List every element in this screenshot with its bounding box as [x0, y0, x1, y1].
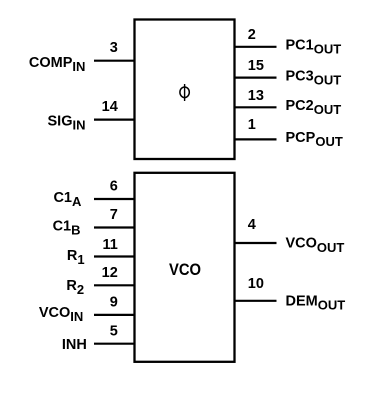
net label PCPOUT: [286, 130, 343, 149]
net label C1A: [53, 190, 82, 209]
net label R2: [66, 278, 84, 297]
pin number 6: [110, 178, 118, 194]
net label PC2OUT: [286, 98, 342, 117]
svg-text:VCO: VCO: [169, 261, 201, 279]
wire pin 7 C1B: [94, 226, 135, 228]
svg-text:6: 6: [110, 178, 118, 194]
VCO block U2: [135, 173, 235, 362]
net label DEMOUT: [286, 293, 346, 312]
phase comparator symbol phi: [180, 84, 189, 101]
svg-text:1: 1: [248, 117, 256, 133]
svg-text:15: 15: [248, 58, 264, 74]
wire pin 2 PC1OUT: [235, 46, 277, 48]
pin number 9: [110, 295, 118, 311]
pin number 3: [110, 40, 118, 56]
wire pin 6 C1A: [94, 198, 135, 200]
svg-text:3: 3: [110, 40, 118, 56]
svg-text:INH: INH: [62, 337, 87, 353]
net label INH: [62, 337, 87, 353]
wire pin 5 INH: [94, 343, 135, 345]
pin number 12: [102, 265, 118, 281]
wire pin 3 COMPIN: [94, 60, 135, 62]
wire pin 14 SIGIN: [94, 118, 135, 120]
net label VCOIN: [39, 305, 83, 324]
svg-text:7: 7: [110, 207, 118, 223]
pin number 7: [110, 207, 118, 223]
svg-text:2: 2: [248, 27, 256, 43]
svg-text:4: 4: [248, 217, 256, 233]
pin number 2: [248, 27, 256, 43]
pin number 13: [248, 88, 264, 104]
pin number 1: [248, 117, 256, 133]
wire pin 11 R1: [94, 255, 135, 257]
wire pin 13 PC2OUT: [235, 106, 277, 108]
net label PC3OUT: [286, 68, 342, 87]
svg-text:11: 11: [102, 237, 117, 253]
pin number 5: [110, 323, 118, 339]
net label R1: [67, 248, 85, 267]
net label VCOOUT: [286, 236, 345, 255]
svg-text:9: 9: [110, 295, 118, 311]
VCO block label: [169, 261, 201, 279]
pin number 11: [102, 237, 117, 253]
wire pin 9 VCOIN: [94, 314, 135, 316]
net label PC1OUT: [286, 37, 342, 56]
pin number 15: [248, 58, 264, 74]
wire pin 1 PCPOUT: [235, 138, 277, 140]
wire pin 10 DEMOUT: [235, 300, 277, 302]
svg-text:13: 13: [248, 88, 264, 104]
pin number 10: [248, 276, 264, 292]
svg-text:5: 5: [110, 323, 118, 339]
pin number 4: [248, 217, 256, 233]
wire pin 4 VCOOUT: [235, 242, 277, 244]
net label C1B: [53, 219, 81, 238]
wire pin 12 R2: [94, 284, 135, 286]
net label SIGIN: [48, 113, 86, 132]
wire pin 15 PC3OUT: [235, 76, 277, 78]
net label COMPIN: [29, 55, 85, 74]
phase comparator block U1: [135, 20, 235, 160]
svg-text:12: 12: [102, 265, 118, 281]
svg-text:14: 14: [102, 99, 118, 115]
svg-text:10: 10: [248, 276, 264, 292]
pin number 14: [102, 99, 118, 115]
